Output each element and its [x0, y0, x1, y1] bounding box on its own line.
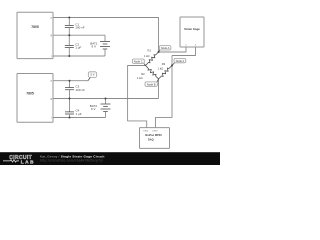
U2 pin marks	[50, 80, 52, 120]
wire U1 middle rail	[53, 34, 105, 36]
junction dots C1/C2 branch	[68, 17, 70, 58]
regulator U2 box 7805	[17, 74, 53, 123]
svg-text:9 V: 9 V	[91, 45, 96, 49]
svg-text:BioPac MP36: BioPac MP36	[145, 133, 162, 137]
wire bridge node B riser	[158, 79, 160, 99]
svg-text:R1: R1	[148, 48, 152, 52]
U1 pin marks	[50, 16, 52, 58]
svg-text:9 V: 9 V	[91, 107, 96, 111]
SG pin numbers	[185, 45, 197, 47]
svg-text:7805: 7805	[26, 92, 34, 96]
wire bridge node C to DAQ CH1	[128, 66, 147, 128]
svg-text:http://circuitlab.com/c9q4k78b: http://circuitlab.com/c9q4k78b5xcp7y/	[40, 158, 103, 162]
junction dot node A	[158, 51, 160, 53]
wire U2 middle excitation rail to bridge node B riser	[53, 98, 159, 100]
svg-text:1 µF: 1 µF	[75, 46, 81, 50]
svg-text:1 kΩ: 1 kΩ	[144, 54, 150, 58]
wire bridge node 2 riser to DAQ CH2	[156, 56, 173, 128]
svg-text:100 nF: 100 nF	[75, 26, 85, 30]
svg-text:1 kΩ: 1 kΩ	[158, 66, 164, 70]
svg-text:CH 2: CH 2	[153, 131, 159, 133]
capacitor C3 100 nF	[65, 81, 85, 99]
capacitor C2 1uF	[65, 35, 82, 56]
junction dot wire crossing node C column	[127, 98, 128, 99]
wire U2 bottom rail	[53, 117, 106, 119]
svg-text:1 kΩ: 1 kΩ	[137, 76, 143, 80]
DAQ box BioPac MP36	[140, 128, 170, 149]
svg-text:Node 2: Node 2	[176, 59, 185, 63]
junction dot BAT2 top	[105, 98, 107, 100]
resistor R3 1k	[158, 62, 172, 79]
node flag Node C	[132, 59, 145, 66]
resistor R2 1k	[137, 66, 159, 80]
capacitor C1 100 nF	[65, 18, 85, 36]
svg-text:LAB: LAB	[21, 159, 35, 165]
svg-text:CH 1: CH 1	[143, 131, 149, 133]
battery BAT1 9V	[90, 35, 110, 56]
resistor R1 1k	[144, 48, 159, 65]
wire +5V top rail from U1 to bridge node A	[53, 18, 159, 53]
svg-text:Node B: Node B	[147, 83, 156, 87]
regulator U1 box 7805	[17, 12, 53, 58]
svg-text:DAQ: DAQ	[148, 138, 154, 142]
strain gage box SG1	[180, 17, 204, 47]
svg-text:R2: R2	[141, 72, 145, 76]
junction dot node 2	[171, 65, 173, 67]
wire strain gage pin2 to node 2 riser	[172, 47, 196, 56]
svg-text:Node A: Node A	[161, 46, 170, 50]
node flag Node A	[159, 46, 171, 52]
svg-text:Node C: Node C	[134, 59, 143, 63]
CircuitLab logo	[3, 155, 35, 165]
wire U1 bottom rail	[53, 55, 105, 57]
capacitor C4 1uF	[65, 99, 82, 118]
svg-text:100 nF: 100 nF	[76, 88, 86, 92]
node flag Node B	[145, 79, 159, 87]
junction dots C3/C4 branch	[69, 80, 71, 119]
svg-text:Strain Gage: Strain Gage	[184, 27, 200, 31]
svg-text:5 V: 5 V	[91, 73, 95, 77]
footer bar	[0, 152, 220, 165]
wire U2 output to 5V flag	[53, 80, 88, 82]
svg-text:1 µF: 1 µF	[76, 112, 82, 116]
wire strain gage pin1 to node A	[159, 47, 187, 52]
svg-text:7805: 7805	[31, 25, 39, 29]
node flag Node 2	[172, 58, 186, 65]
battery BAT2 9V	[90, 99, 111, 118]
svg-text:R3: R3	[162, 62, 166, 66]
net flag 5V	[88, 72, 97, 81]
